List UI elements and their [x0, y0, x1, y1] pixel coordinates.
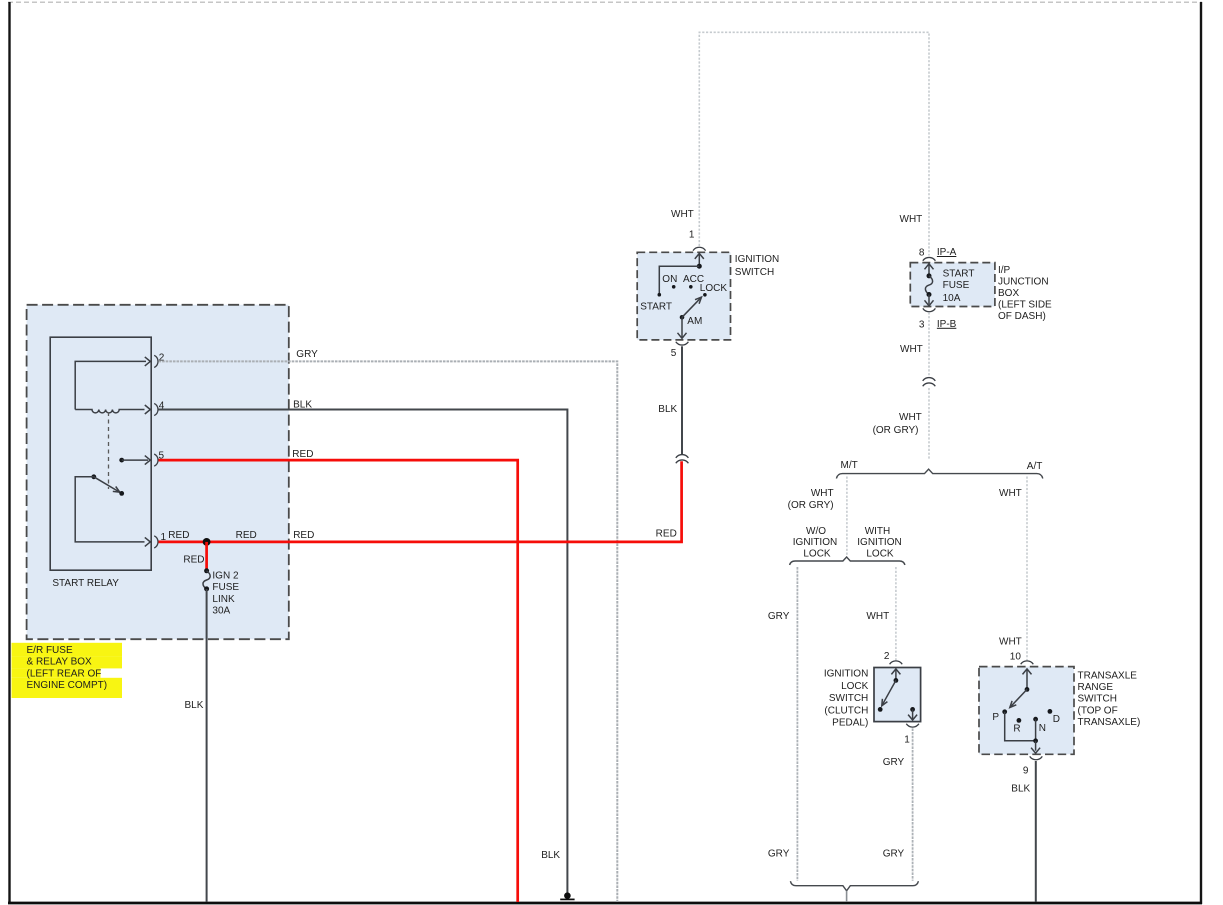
- relay pin 5 contact dot: [119, 458, 124, 463]
- inline connector lower half (WHT run): [923, 383, 936, 386]
- svg-text:RED: RED: [183, 555, 204, 566]
- ignition switch feed to START contact: [659, 266, 699, 293]
- merge bracket (bottom): [790, 881, 918, 891]
- relay armature tip dot: [119, 491, 124, 496]
- start fuse bottom dot: [927, 292, 932, 297]
- svg-text:SWITCH: SWITCH: [735, 267, 774, 278]
- inline connector lower half: [676, 460, 689, 463]
- svg-text:M/T: M/T: [841, 460, 858, 471]
- svg-text:JUNCTION: JUNCTION: [998, 276, 1049, 287]
- svg-text:1: 1: [904, 734, 910, 745]
- wire WHT to M/T A/T split: [928, 388, 930, 460]
- ON contact dot: [672, 285, 676, 289]
- svg-text:(LEFT SIDE: (LEFT SIDE: [998, 300, 1052, 311]
- ignition switch feed dot: [697, 264, 702, 269]
- ignition switch pin 5 arrow: [678, 333, 687, 339]
- svg-text:E/R FUSE: E/R FUSE: [27, 645, 73, 656]
- relay pin 5 lead: [122, 459, 148, 461]
- svg-text:IGNITION: IGNITION: [793, 537, 837, 548]
- relay coil-armature dashed link: [108, 412, 110, 489]
- svg-text:30A: 30A: [212, 606, 230, 617]
- wire BLK below fuse link: [206, 589, 208, 902]
- svg-text:A/T: A/T: [1027, 461, 1043, 472]
- relay pin 5 arrow: [145, 456, 151, 465]
- svg-text:D: D: [1053, 714, 1060, 725]
- ignition switch wiper dot (AM): [680, 315, 685, 320]
- svg-text:RED: RED: [168, 530, 189, 541]
- svg-text:IP-A: IP-A: [937, 247, 957, 258]
- svg-text:SWITCH: SWITCH: [829, 693, 868, 704]
- P contact circuit to pin 9: [1005, 712, 1036, 741]
- svg-text:RED: RED: [656, 529, 677, 540]
- svg-text:IP-B: IP-B: [937, 319, 957, 330]
- svg-text:9: 9: [1023, 766, 1029, 777]
- relay pin 2 connector cup: [154, 355, 158, 367]
- connector cup at transaxle pin 9: [1030, 756, 1043, 759]
- start relay body: [50, 337, 151, 570]
- transaxle pin 10 arrow: [1023, 669, 1032, 689]
- svg-text:WHT: WHT: [999, 637, 1022, 648]
- wire GRY from relay pin 2: [159, 361, 618, 902]
- svg-text:IGN 2: IGN 2: [212, 570, 239, 581]
- svg-text:SWITCH: SWITCH: [1078, 694, 1117, 705]
- svg-text:GRY: GRY: [883, 757, 905, 768]
- svg-text:AM: AM: [687, 316, 702, 327]
- svg-text:WHT: WHT: [811, 488, 834, 499]
- wire GRY W/O branch: [796, 567, 798, 881]
- svg-text:N: N: [1039, 723, 1046, 734]
- svg-text:START: START: [943, 268, 975, 279]
- svg-text:WHT: WHT: [866, 611, 889, 622]
- svg-text:START RELAY: START RELAY: [52, 578, 119, 589]
- svg-text:GRY: GRY: [768, 611, 790, 622]
- svg-text:2: 2: [884, 651, 890, 662]
- relay armature arrowhead: [113, 487, 120, 493]
- svg-text:WHT: WHT: [900, 344, 923, 355]
- svg-text:W/O: W/O: [806, 526, 826, 537]
- svg-text:LOCK: LOCK: [841, 681, 869, 692]
- relay pin 4 arrow: [145, 405, 151, 414]
- connector cup at I/P box pin 3: [923, 308, 936, 311]
- start fuse top dot: [927, 273, 932, 278]
- lock switch contact dot (left): [878, 707, 883, 712]
- svg-text:1: 1: [689, 230, 695, 241]
- svg-text:LOCK: LOCK: [803, 548, 831, 559]
- wire BLK from relay pin 4: [159, 410, 568, 893]
- R contact dot: [1017, 718, 1022, 723]
- merged wire stub: [846, 891, 848, 902]
- svg-text:WHT: WHT: [900, 214, 923, 225]
- transaxle wiper arm: [1011, 689, 1028, 706]
- relay coil winding: [75, 410, 144, 413]
- fuse link IGN 2 bottom dot: [204, 586, 209, 591]
- svg-text:TRANSAXLE): TRANSAXLE): [1078, 717, 1141, 728]
- svg-text:ENGINE COMPT): ENGINE COMPT): [27, 680, 108, 691]
- splice junction dot: [203, 538, 211, 546]
- I/P junction box: [910, 263, 995, 307]
- connector cup at lock switch pin 2: [890, 661, 903, 664]
- ignition switch wiper arm: [682, 297, 701, 317]
- svg-text:OF DASH): OF DASH): [998, 311, 1046, 322]
- svg-text:GRY: GRY: [296, 349, 318, 360]
- wire RED stub to fuse link: [205, 542, 208, 570]
- E/R fuse &amp; relay box (dashed enclosure): [27, 305, 289, 639]
- inline connector upper half (WHT run): [923, 378, 936, 381]
- svg-text:P: P: [992, 712, 999, 723]
- svg-text:WHT: WHT: [671, 209, 694, 220]
- svg-text:BLK: BLK: [293, 399, 312, 410]
- highlighter mark: [12, 643, 123, 698]
- transaxle wiper dot: [1025, 687, 1030, 692]
- svg-text:(OR GRY): (OR GRY): [873, 425, 919, 436]
- svg-text:IGNITION: IGNITION: [857, 537, 901, 548]
- LOCK contact dot: [703, 293, 707, 297]
- wire RED from relay pin 5: [159, 460, 518, 902]
- wire RED from relay pin 1: [159, 461, 682, 542]
- page border right: [1200, 2, 1202, 904]
- svg-text:IGNITION: IGNITION: [824, 669, 868, 680]
- svg-text:LOCK: LOCK: [866, 548, 894, 559]
- wire WHT loop (ignition switch pin 1 to I/P junction box pin 8): [699, 32, 929, 255]
- svg-text:RED: RED: [236, 530, 257, 541]
- lock switch wiper dot: [894, 678, 899, 683]
- ignition switch pin 5 lead: [681, 317, 683, 337]
- wire BLK below transaxle switch: [1035, 761, 1037, 902]
- N contact lead: [1035, 719, 1037, 741]
- wire BLK from ignition switch pin 5: [681, 346, 683, 454]
- svg-text:WHT: WHT: [999, 488, 1022, 499]
- transaxle wiper arrowhead: [1010, 701, 1017, 708]
- lock switch pin 1 arrow: [908, 715, 917, 721]
- connector cup at lock switch pin 1: [906, 724, 919, 727]
- svg-text:(LEFT REAR OF: (LEFT REAR OF: [27, 668, 102, 679]
- page border top (dashed): [8, 1, 1202, 3]
- svg-text:(TOP OF: (TOP OF: [1078, 705, 1118, 716]
- start fuse element: [925, 276, 932, 295]
- svg-text:RED: RED: [292, 449, 313, 460]
- junction dot at pin 9 lead: [1033, 738, 1038, 743]
- page border bottom: [8, 902, 1202, 905]
- svg-text:GRY: GRY: [883, 849, 905, 860]
- relay armature pivot dot: [91, 474, 96, 479]
- relay pin 4 connector cup: [154, 403, 158, 415]
- D contact dot: [1048, 709, 1053, 714]
- svg-text:I/P: I/P: [998, 265, 1011, 276]
- relay armature: [94, 477, 119, 492]
- lock switch wiper arm: [882, 680, 896, 705]
- start fuse top arrow: [925, 264, 934, 276]
- P contact dot: [1002, 709, 1007, 714]
- svg-text:LINK: LINK: [212, 594, 235, 605]
- svg-text:BLK: BLK: [658, 404, 677, 415]
- svg-text:5: 5: [671, 348, 677, 359]
- fuse link IGN 2 top dot: [204, 568, 209, 573]
- svg-text:IGNITION: IGNITION: [735, 254, 779, 265]
- svg-text:BOX: BOX: [998, 288, 1019, 299]
- svg-text:10A: 10A: [943, 293, 961, 304]
- relay pin 1 arrow: [145, 537, 151, 546]
- connector cup at ignition switch pin 1: [693, 247, 706, 250]
- relay common circuit (pin 1 loop): [75, 477, 144, 542]
- svg-text:FUSE: FUSE: [943, 280, 970, 291]
- svg-text:TRANSAXLE: TRANSAXLE: [1078, 671, 1138, 682]
- lock switch pin 1 lead: [912, 709, 914, 719]
- svg-text:10: 10: [1010, 651, 1022, 662]
- svg-text:BLK: BLK: [541, 850, 560, 861]
- svg-text:WHT: WHT: [899, 412, 922, 423]
- svg-text:8: 8: [919, 248, 925, 259]
- relay pin 1 connector cup: [154, 536, 158, 548]
- svg-text:R: R: [1013, 724, 1020, 735]
- svg-text:BLK: BLK: [1011, 784, 1030, 795]
- ignition lock switch box: [874, 668, 921, 722]
- N contact dot: [1033, 717, 1038, 722]
- svg-text:BLK: BLK: [185, 700, 204, 711]
- ignition switch box: [637, 252, 730, 340]
- connector cup at transaxle switch pin 10: [1021, 661, 1034, 664]
- svg-text:3: 3: [919, 320, 925, 331]
- lock switch wiper arrowhead: [882, 699, 888, 706]
- start fuse bottom arrow: [925, 295, 934, 306]
- svg-text:RED: RED: [293, 530, 314, 541]
- svg-text:LOCK: LOCK: [700, 283, 728, 294]
- relay coil circuit (pin 2 to pin 4): [75, 361, 146, 409]
- relay pin 2 arrow: [145, 357, 151, 366]
- lock switch contact dot (right): [910, 707, 915, 712]
- svg-text:ON: ON: [662, 274, 677, 285]
- M/T A/T split bracket: [836, 469, 1042, 478]
- ground bar: [560, 898, 574, 900]
- wire GRY below lock switch: [912, 728, 914, 880]
- ground splice dot: [564, 892, 571, 899]
- inline connector upper half: [676, 455, 689, 458]
- fuse link IGN 2 element: [203, 571, 210, 589]
- svg-text:RANGE: RANGE: [1078, 682, 1114, 693]
- svg-text:START: START: [640, 302, 672, 313]
- ignition switch pin 1 arrow: [695, 253, 704, 266]
- ignition lock split bracket: [790, 557, 905, 565]
- transaxle pin 9 lead: [1035, 741, 1037, 751]
- relay pin 5 connector cup: [154, 454, 158, 466]
- transaxle range switch box: [979, 667, 1074, 755]
- wire WHT WITH branch: [895, 567, 897, 660]
- wire WHT below I/P box: [928, 312, 930, 377]
- svg-text:& RELAY BOX: & RELAY BOX: [27, 657, 93, 668]
- svg-text:WITH: WITH: [865, 526, 891, 537]
- svg-text:(CLUTCH: (CLUTCH: [824, 705, 868, 716]
- svg-text:FUSE: FUSE: [212, 582, 239, 593]
- connector cup at ignition switch pin 5: [676, 342, 689, 345]
- wire WHT M/T branch: [846, 477, 848, 557]
- connector cup at I/P box pin 8: [923, 257, 936, 260]
- transaxle pin 9 arrow: [1031, 748, 1040, 754]
- svg-text:PEDAL): PEDAL): [832, 718, 868, 729]
- START contact dot: [658, 293, 662, 297]
- page border left: [8, 2, 10, 904]
- svg-text:GRY: GRY: [768, 849, 790, 860]
- wiper arrowhead: [695, 297, 702, 304]
- svg-text:(OR GRY): (OR GRY): [788, 500, 834, 511]
- lock switch pin 2 arrow: [891, 669, 900, 680]
- wire WHT A/T branch: [1026, 477, 1028, 661]
- ACC contact dot: [689, 285, 693, 289]
